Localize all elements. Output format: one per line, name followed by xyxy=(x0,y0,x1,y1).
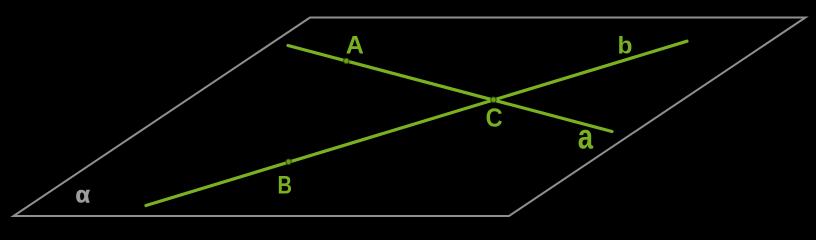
svg-text:B: B xyxy=(278,171,293,199)
svg-text:α: α xyxy=(76,182,91,208)
svg-text:A: A xyxy=(346,32,364,60)
line a xyxy=(288,46,612,132)
svg-text:C: C xyxy=(486,102,503,132)
point B xyxy=(286,159,291,164)
svg-text:a: a xyxy=(578,117,594,156)
point C xyxy=(491,97,496,102)
svg-text:b: b xyxy=(618,33,633,60)
line b xyxy=(146,41,687,205)
point A xyxy=(344,58,349,63)
